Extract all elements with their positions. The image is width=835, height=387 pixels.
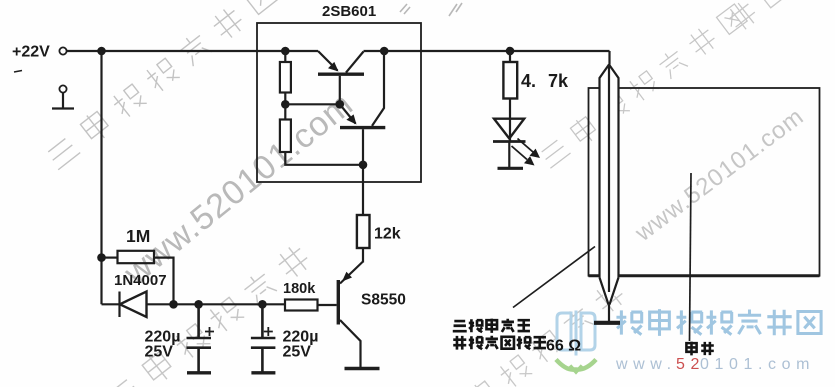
node 4.7k branch: [506, 47, 515, 56]
watermark fragment top-right: [725, 0, 790, 34]
svg-text:1N4007: 1N4007: [114, 272, 167, 289]
svg-text:25V: 25V: [283, 344, 312, 361]
node A: [281, 47, 290, 56]
svg-text:4.: 4.: [521, 71, 536, 91]
wire box to 12k: [362, 165, 364, 215]
wire B to C: [285, 103, 340, 105]
chassis symbol: [59, 85, 66, 92]
wire left drop: [100, 51, 102, 304]
svg-text:180k: 180k: [283, 281, 316, 297]
svg-text:25V: 25V: [145, 344, 174, 361]
svg-text:www.: www.: [615, 356, 677, 373]
resistor Ra internal: [284, 51, 286, 62]
svg-text:66 Ω: 66 Ω: [546, 338, 581, 355]
transistor Q1: [318, 72, 364, 75]
watermark row A1 upper-left: [43, 0, 280, 172]
node 1M branch: [97, 253, 106, 262]
node diode-right: [169, 300, 178, 309]
svg-text:1M: 1M: [126, 226, 150, 246]
svg-text:7k: 7k: [548, 71, 569, 91]
heater element: [600, 51, 619, 321]
terminal +22V: [59, 47, 66, 54]
node D: [380, 47, 389, 56]
node top-left junction: [97, 47, 106, 56]
watermark blue chinese title: [616, 309, 821, 336]
watermark book icon: [557, 311, 595, 356]
wire 1M to node: [154, 258, 174, 305]
node cap C1: [194, 300, 203, 309]
ground C1: [187, 371, 211, 374]
watermark row A3 bottom-left partial: [104, 242, 313, 387]
node B: [284, 93, 286, 105]
node C: [336, 100, 345, 109]
wire top left: [67, 50, 318, 52]
watermark book green base: [556, 360, 596, 370]
wire Rb to node E: [285, 152, 363, 165]
watermark row A4 bottom-center partial: [433, 279, 628, 387]
ground LED: [498, 167, 524, 170]
svg-text:0101.com: 0101.com: [700, 356, 815, 373]
LED D2: [509, 99, 511, 142]
label three heater wires: [453, 319, 546, 350]
watermark row A2 upper-right: [537, 2, 749, 170]
screen box: [589, 88, 820, 276]
leader line vertical screen: [690, 173, 692, 341]
transistor Q2: [340, 126, 385, 129]
leader line diagonal: [513, 247, 595, 308]
watermark tip marks top: [400, 3, 462, 16]
stray mark: [14, 71, 22, 73]
wire top right: [364, 50, 610, 52]
ground heater: [594, 321, 620, 325]
svg-text:2SB601: 2SB601: [322, 3, 376, 20]
label screen: [686, 342, 713, 356]
heater pencil white mask: [600, 65, 619, 305]
svg-text:+22V: +22V: [12, 44, 50, 61]
svg-text:www.520101.com: www.520101.com: [630, 103, 810, 248]
node E bottom: [359, 161, 368, 170]
wire 180k to Q3 base: [318, 304, 337, 306]
node cap C2: [258, 300, 267, 309]
LED arrows: [518, 139, 534, 153]
svg-text:S8550: S8550: [361, 292, 406, 309]
ground Q3: [345, 367, 380, 371]
resistor Rb internal: [284, 104, 286, 119]
svg-text:12k: 12k: [374, 226, 401, 243]
ground C2: [251, 371, 275, 374]
